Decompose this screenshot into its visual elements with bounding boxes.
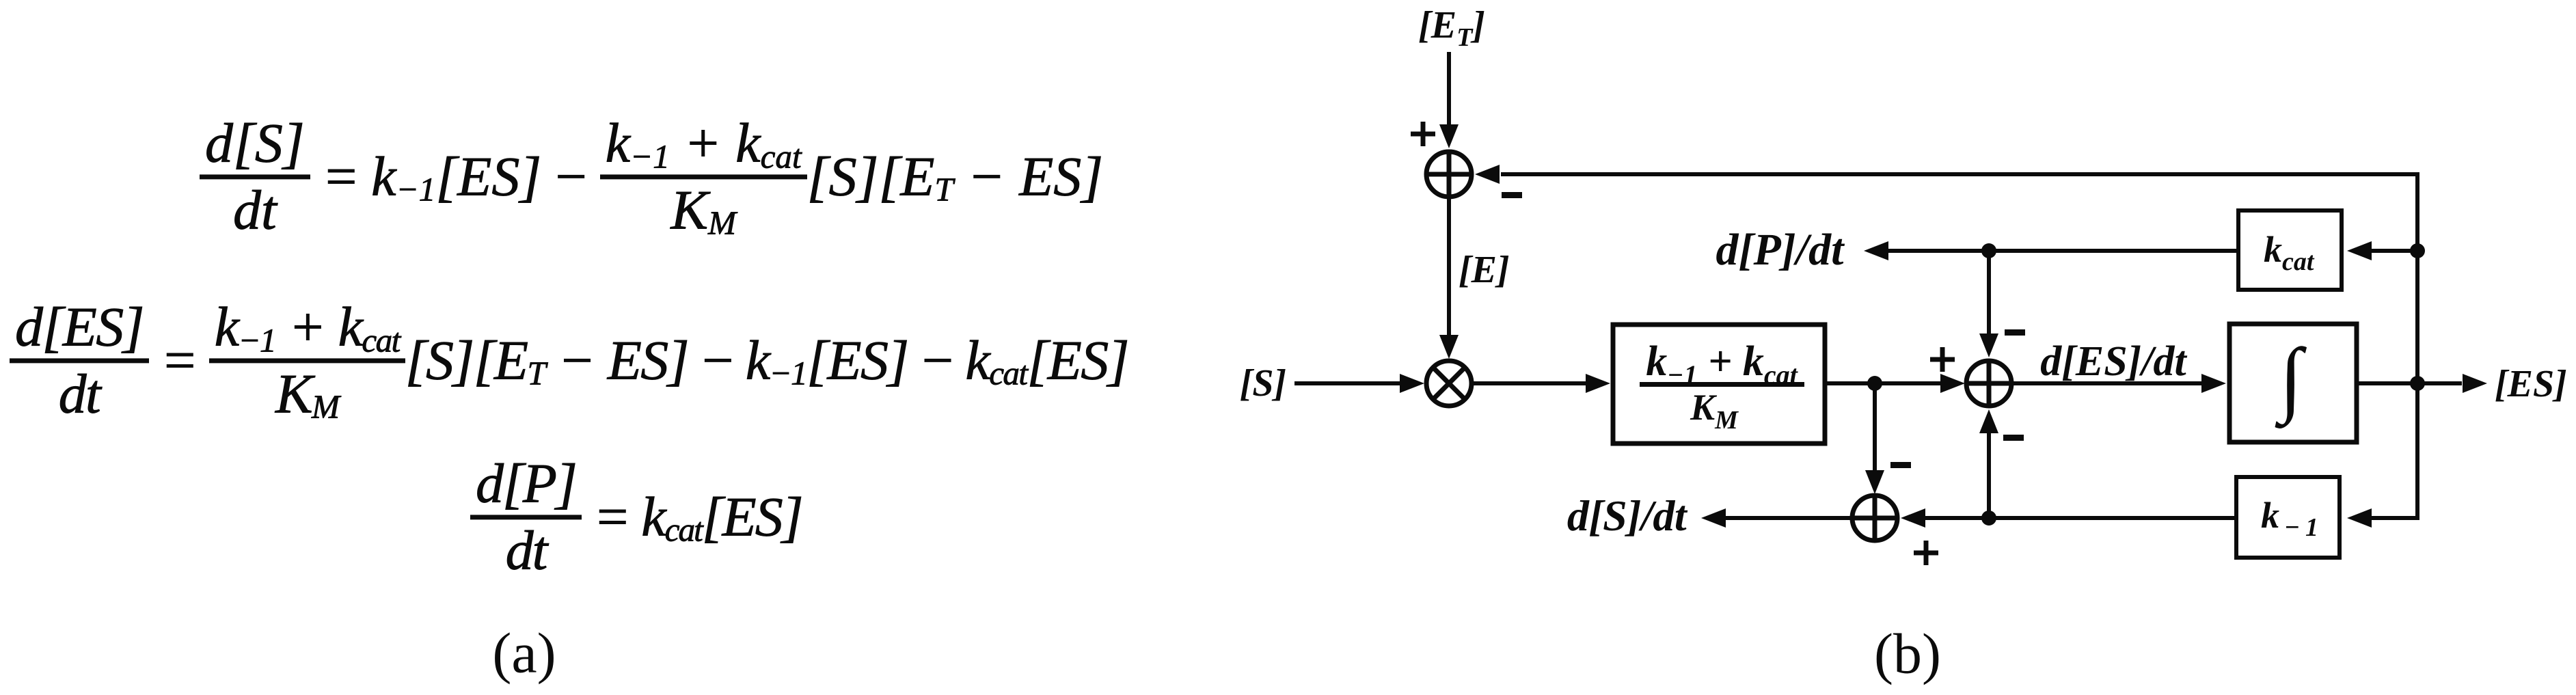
- wire summer S2 to integrator B2, net d[ES]/dt: [2014, 374, 2226, 393]
- wire integrator B2 output to [ES]: [2359, 374, 2487, 393]
- minus sign at summer S1 feedback input: [1502, 192, 1522, 198]
- svg-text:d[ES]/dt: d[ES]/dt: [2040, 338, 2187, 385]
- summer S2 (d[ES]/dt summation): [1966, 361, 2011, 406]
- junction node on bottom run below summer S2: [1981, 510, 1996, 526]
- integrator block B2: [2229, 324, 2357, 442]
- svg-text:∫: ∫: [2275, 331, 2307, 428]
- wire [ES] feedback: vertical trunk and top run into S1: [1475, 165, 2417, 528]
- caption (a): [492, 621, 556, 687]
- value label of B1: numerator k-1 + kcat: [1646, 338, 1798, 390]
- minus sign at summer S2 top input: [2005, 329, 2025, 336]
- svg-text:[S]: [S]: [1240, 362, 1286, 405]
- junction node on feedback trunk at kcat row: [2410, 243, 2425, 258]
- gain block B3 kcat: [2238, 210, 2342, 290]
- integral sign label of B2: [2275, 331, 2307, 428]
- equation 3: d[P]/dt = kcat[ES]: [470, 454, 802, 578]
- node d[S]/dt output label: [1567, 491, 1688, 540]
- junction node on B1 output: [1867, 376, 1882, 391]
- equation 2: d[ES]/dt = (k-1+kcat)/KM [S][ET-ES] - k-1[ES] - kcat[ES]: [10, 298, 1128, 422]
- minus sign at summer S3 top input: [1890, 462, 1911, 468]
- svg-text:k−1: k−1: [2261, 495, 2318, 542]
- junction node on d[P]/dt run above summer S2: [1981, 243, 1996, 258]
- wire feedback trunk into gain block B3 kcat: [2347, 241, 2417, 260]
- equation 1: d[S]/dt = k-1[ES] - (k-1+kcat)/KM [S][ET-ES]: [200, 114, 1103, 238]
- wire summer S1 to multiplier M1, net [E]: [1439, 198, 1459, 359]
- wire summer S3 output to d[S]/dt: [1701, 508, 1850, 528]
- node d[ES]/dt net label: [2040, 338, 2187, 385]
- multiplier M1 (product junction): [1426, 361, 1472, 406]
- node [E] net label: [1459, 249, 1510, 291]
- gain block B1 (k-1+kcat)/KM: [1613, 325, 1825, 444]
- gain block B4 k-1: [2236, 477, 2340, 558]
- svg-text:[E]: [E]: [1459, 249, 1510, 291]
- junction node on [ES] output at feedback trunk: [2410, 376, 2425, 391]
- wire multiplier M1 to gain block B1: [1472, 374, 1610, 393]
- plus sign at summer S2 left input: [1930, 347, 1955, 372]
- value label of B1: denominator KM: [1690, 387, 1739, 435]
- plus sign at summer S1 input: [1411, 122, 1435, 146]
- svg-text:d[S]/dt: d[S]/dt: [1567, 491, 1688, 540]
- wire gain block B1 to summer S2: [1825, 374, 1965, 393]
- caption (b): [1874, 621, 1941, 687]
- wire from d[P]/dt node down into summer S2: [1979, 251, 1998, 357]
- summer S1 (totals enzyme): [1426, 152, 1472, 197]
- minus sign at summer S2 bottom input: [2003, 435, 2024, 441]
- svg-text:[ES]: [ES]: [2495, 363, 2567, 405]
- value label k-1: [2261, 495, 2318, 542]
- wire branch from B1 output down into summer S3: [1865, 383, 1884, 494]
- wire gain B3 output to d[P]/dt: [1864, 241, 2236, 260]
- svg-text:KM: KM: [1690, 387, 1739, 435]
- wire from bottom node up into summer S2: [1979, 409, 1998, 518]
- plus sign at summer S3 right input: [1914, 541, 1938, 565]
- value label of B1: fraction bar: [1640, 382, 1804, 387]
- wire [E_T] down into summer S1: [1439, 52, 1459, 148]
- svg-text:[ET]: [ET]: [1418, 4, 1485, 52]
- node [E_T] input label: [1418, 4, 1485, 52]
- node [S] input label: [1240, 362, 1286, 405]
- svg-text:kcat: kcat: [2264, 229, 2315, 276]
- wire gain B4 output into summer S3: [1901, 508, 2236, 528]
- value label kcat: [2264, 229, 2315, 276]
- node [ES] output label: [2495, 363, 2567, 405]
- wire [S] into multiplier M1: [1294, 374, 1424, 393]
- summer S3 (d[S]/dt summation): [1852, 495, 1897, 541]
- node d[P]/dt output label: [1716, 225, 1845, 275]
- svg-text:d[P]/dt: d[P]/dt: [1716, 225, 1845, 275]
